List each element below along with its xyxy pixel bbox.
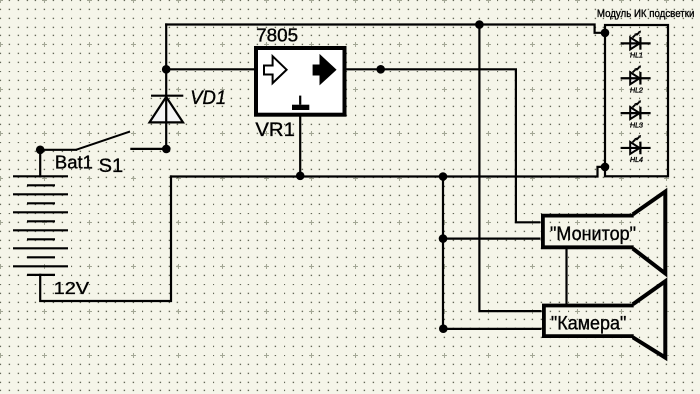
node module bottom: [601, 163, 610, 172]
svg-text:Bat1: Bat1: [55, 151, 93, 172]
svg-text:"Камера": "Камера": [551, 314, 627, 335]
LED HL1: [621, 31, 651, 60]
svg-text:S1: S1: [99, 156, 124, 177]
wire: bottom-rail branch down, Monitor lower entry, Camera lower entry: [443, 177, 540, 329]
wire: top-rail branch down to Camera upper entry: [479, 25, 540, 312]
diode VD1: [150, 96, 184, 123]
Camera speaker box: [544, 306, 634, 337]
svg-text:Модуль ИК подсветки: Модуль ИК подсветки: [597, 8, 695, 20]
wire: switch right lead: [131, 148, 166, 150]
wire: vertical battery+ rail x=166 down to switch dot: [165, 25, 167, 149]
voltage regulator VR1 (7805) box: [256, 48, 345, 115]
svg-text:12V: 12V: [54, 278, 90, 298]
svg-text:7805: 7805: [256, 25, 298, 45]
node top rail branch: [475, 20, 484, 29]
svg-text:VR1: VR1: [255, 120, 295, 141]
svg-text:"Монитор": "Монитор": [550, 224, 636, 245]
node module top: [601, 29, 610, 38]
node switch/diode: [162, 145, 171, 154]
wire: 7805 ground to bottom rail: [299, 117, 301, 177]
wire: switch left lead: [40, 149, 76, 151]
wire: bottom rail: [171, 167, 601, 177]
Monitor speaker box: [543, 216, 634, 248]
module box: IR backlight: [605, 25, 668, 176]
svg-text:HL1: HL1: [630, 53, 643, 60]
LED HL4: [621, 135, 651, 164]
svg-text:HL3: HL3: [630, 122, 643, 129]
wire: 7805 input wire: [166, 68, 254, 70]
svg-text:HL2: HL2: [630, 87, 643, 94]
wire: battery+ terminal stub: [39, 150, 41, 177]
wire: top rail from diode branch to module: [166, 25, 601, 33]
svg-text:VD1: VD1: [190, 88, 226, 109]
Monitor horn: [633, 192, 666, 274]
battery Bat1: [13, 176, 68, 275]
node monitor branch: [439, 234, 448, 243]
LED HL2: [621, 65, 651, 94]
regulator input hollow arrow: [264, 56, 287, 83]
node bottom rail branch: [439, 172, 448, 181]
svg-text:HL4: HL4: [630, 157, 643, 164]
node camera corner: [439, 324, 448, 333]
LED HL3: [621, 100, 651, 129]
Camera horn: [633, 281, 666, 357]
regulator ground symbol: [299, 96, 301, 105]
node diode/7805 input: [162, 65, 171, 74]
wire: battery- down, along bottom, up to bottom rail: [40, 177, 171, 302]
switch S1 blade: [76, 132, 130, 150]
wire: connector between Monitor and Camera: [565, 249, 567, 304]
wire: 7805 output wire, right then down to Monitor: [347, 69, 540, 222]
regulator output filled arrow: [314, 56, 336, 83]
node 7805 gnd on rail: [296, 172, 305, 181]
node battery+/switch: [36, 146, 45, 155]
node output wire: [376, 65, 385, 74]
